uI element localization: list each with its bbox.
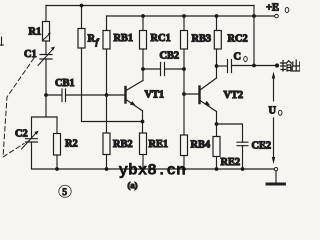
node RC2 rail	[215, 14, 219, 18]
resistor RC1	[140, 16, 147, 81]
resistor RB4	[181, 135, 188, 169]
node CB2 to RB3	[182, 67, 186, 71]
resistor RB1	[103, 16, 110, 95]
svg-text:VT2: VT2	[224, 90, 244, 101]
transistor VT2	[200, 78, 217, 137]
wire bottom ground rail	[32, 168, 275, 170]
node RC1 rail	[141, 14, 145, 18]
node VT2 collector	[215, 64, 219, 68]
wire VT2 base lead	[184, 93, 199, 95]
capacitor C0	[217, 60, 275, 73]
svg-text:U: U	[269, 106, 277, 117]
node E0 rail crossing	[252, 14, 256, 18]
svg-text:VT1: VT1	[145, 90, 165, 101]
capacitor CB1	[46, 89, 124, 102]
resistor R1	[43, 6, 51, 55]
node VT2 base	[182, 92, 186, 96]
label (5) figure number	[59, 185, 71, 197]
node input junction	[44, 93, 48, 97]
svg-text:CB2: CB2	[160, 51, 180, 62]
capacitor CB2	[143, 63, 184, 76]
wire top supply rail	[46, 5, 254, 7]
svg-text:C: C	[234, 52, 242, 63]
node VT2 emitter	[215, 122, 219, 126]
resistor RE2	[213, 137, 220, 170]
terminal ground circle	[274, 168, 277, 171]
arrow U0 (output voltage)	[272, 72, 275, 165]
label 输出 (output) hand-drawn glyphs	[281, 60, 301, 71]
resistor RB3	[181, 16, 188, 135]
svg-text:ybx8.cn: ybx8.cn	[119, 162, 186, 180]
node RB3 rail	[182, 14, 186, 18]
svg-text:f: f	[96, 37, 100, 47]
capacitor C1 (variable)	[38, 47, 55, 118]
svg-text:CB1: CB1	[55, 78, 75, 89]
svg-text:5: 5	[62, 188, 67, 198]
node RE2 ground	[215, 167, 219, 171]
node VT1 base divider	[105, 93, 109, 97]
node R2 ground	[55, 167, 59, 171]
resistor R2	[32, 117, 61, 169]
wire second supply rail	[107, 15, 275, 17]
node VT1 emitter feedback	[141, 120, 145, 124]
node RB2 ground	[105, 167, 109, 171]
transistor VT1	[126, 81, 144, 134]
svg-text:RB2: RB2	[113, 139, 133, 150]
svg-text:+E: +E	[266, 3, 279, 14]
svg-text:(a): (a)	[128, 180, 138, 190]
wire right vertical from top rail to output line	[253, 6, 255, 66]
capacitor CE2	[217, 124, 249, 169]
svg-text:C2: C2	[15, 129, 28, 140]
wire feedback to VT1 emitter	[82, 121, 143, 123]
svg-text:CE2: CE2	[252, 141, 272, 152]
node RB4 ground	[182, 167, 186, 171]
resistor Rf	[78, 6, 85, 122]
svg-text:RC1: RC1	[151, 33, 171, 44]
terminal +E0	[275, 14, 279, 18]
resistor RB2	[103, 95, 110, 169]
svg-text:RC2: RC2	[228, 34, 248, 45]
svg-text:RB4: RB4	[191, 140, 211, 151]
dashed mechanical link C1-C2	[3, 58, 34, 157]
svg-text:R: R	[88, 34, 96, 45]
svg-text:R1: R1	[29, 27, 42, 38]
svg-text:C1: C1	[24, 49, 37, 60]
svg-text:RB1: RB1	[114, 33, 134, 44]
resistor RE1	[140, 133, 147, 169]
node CE2 ground	[241, 167, 245, 171]
resistor RC2	[214, 16, 221, 78]
svg-text:RB3: RB3	[192, 34, 212, 45]
node C0 right	[252, 64, 256, 68]
svg-text:RE2: RE2	[221, 157, 241, 168]
terminal output	[275, 63, 279, 67]
svg-text:R2: R2	[65, 139, 78, 150]
node Rf top	[80, 4, 84, 8]
capacitor C2 (variable)	[22, 117, 39, 169]
svg-text:RE1: RE1	[149, 139, 169, 150]
left edge artifact mark	[0, 37, 4, 46]
node VT1 collector	[141, 67, 145, 71]
ground	[267, 171, 285, 184]
